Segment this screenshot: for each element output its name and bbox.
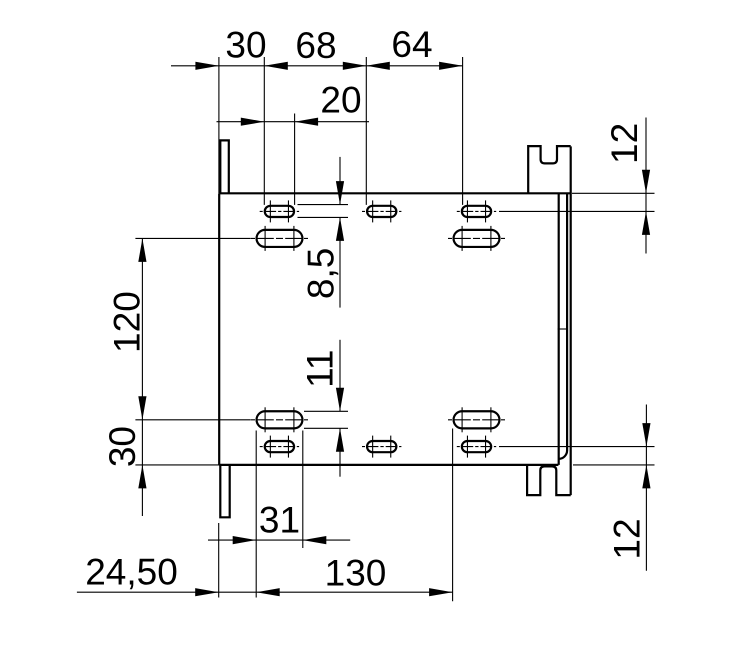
svg-text:31: 31 [259, 500, 300, 541]
svg-text:120: 120 [107, 291, 148, 353]
svg-text:12: 12 [607, 518, 648, 559]
svg-text:130: 130 [325, 553, 387, 594]
svg-text:30: 30 [102, 426, 143, 467]
svg-text:12: 12 [604, 123, 645, 164]
svg-text:24,50: 24,50 [85, 552, 178, 593]
svg-text:30: 30 [225, 25, 266, 66]
svg-text:8,5: 8,5 [301, 248, 342, 299]
svg-text:11: 11 [300, 349, 341, 387]
svg-text:20: 20 [320, 80, 361, 121]
svg-text:68: 68 [295, 25, 336, 66]
svg-text:64: 64 [391, 24, 432, 65]
